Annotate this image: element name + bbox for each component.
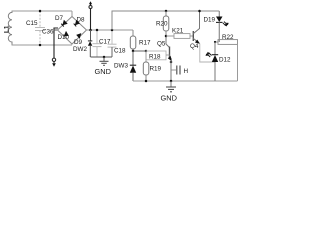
wire top-left AC rail [12, 10, 73, 12]
LED D19 arrows [223, 22, 227, 26]
svg-text:R17: R17 [139, 40, 151, 47]
svg-text:D12: D12 [219, 57, 231, 64]
ground symbol right [170, 81, 172, 87]
svg-text:GND: GND [95, 67, 111, 76]
svg-text:K21: K21 [172, 28, 184, 35]
wire ground bus y57 [91, 56, 113, 58]
wire riser to top rail [112, 11, 219, 30]
node C17 top [96, 29, 99, 32]
wire black vertical to lower terminal [54, 28, 58, 58]
svg-text:R20: R20 [156, 21, 168, 28]
node gnd right [170, 80, 173, 83]
svg-text:D9: D9 [74, 39, 83, 46]
resistor K21 [166, 35, 174, 37]
node at R17 bottom [132, 50, 135, 53]
node C18 top [111, 29, 114, 32]
node R19 bottom [145, 80, 148, 83]
transistor Q4 [192, 31, 194, 41]
capacitor C18 [111, 30, 113, 44]
svg-text:C15: C15 [26, 20, 38, 27]
svg-text:D10: D10 [58, 34, 70, 41]
svg-text:DW3: DW3 [114, 63, 128, 70]
resistor R17 [132, 30, 134, 36]
svg-text:C36: C36 [42, 29, 54, 36]
diode D8 [75, 20, 80, 26]
svg-text:D8: D8 [77, 17, 86, 24]
wire Q4 emitter to D12 branch [200, 44, 215, 62]
capacitor H [171, 69, 176, 71]
LED D12 arrows [207, 53, 211, 58]
node gnd bus [103, 56, 106, 59]
zener DW2 [90, 30, 92, 41]
svg-text:C18: C18 [114, 48, 126, 55]
svg-text:GND: GND [161, 94, 177, 103]
zener DW3 [132, 51, 134, 66]
LED D19 [218, 11, 220, 17]
terminal arrow bottom (off-page) [52, 58, 55, 61]
svg-text:R22: R22 [222, 34, 234, 41]
wire R17 to R18 [133, 50, 146, 52]
terminal arrow top (off-page) [90, 9, 92, 30]
svg-text:R18: R18 [149, 54, 161, 61]
node on top rail at C15 [39, 10, 42, 13]
svg-text:R19: R19 [150, 66, 162, 73]
wire bottom-left AC rail [12, 44, 73, 46]
bridge rectifier diamond edges [58, 17, 87, 45]
diode D7 [62, 20, 67, 26]
wire DC+ rail y30 [87, 29, 134, 31]
node Q5 emitter [170, 61, 173, 64]
svg-text:Q5: Q5 [157, 41, 166, 48]
inductor L1 coil [8, 11, 12, 45]
ground symbol left [103, 57, 105, 61]
svg-text:D19: D19 [204, 17, 216, 24]
resistor R18 [146, 51, 166, 60]
svg-text:D7: D7 [55, 15, 64, 22]
resistor R19 [145, 51, 147, 62]
wire bridge minus stub [54, 29, 58, 31]
svg-text:DW2: DW2 [73, 46, 87, 53]
node on bottom rail at C15 [39, 44, 42, 47]
diode D10 [64, 31, 69, 37]
diode D9 [76, 33, 81, 39]
svg-text:L1: L1 [4, 25, 11, 33]
wire top rail drop to bridge top [71, 11, 73, 17]
capacitor C17 [96, 30, 98, 44]
resistor R20 [165, 10, 168, 13]
LED D12 [214, 42, 216, 55]
svg-text:Q4: Q4 [190, 43, 199, 50]
capacitor C15 [39, 11, 41, 27]
node at terminal tap [89, 29, 92, 32]
resistor R22 [215, 41, 218, 43]
svg-text:H: H [184, 68, 189, 75]
bottom rail [133, 80, 238, 82]
node at R18 left [145, 50, 148, 53]
